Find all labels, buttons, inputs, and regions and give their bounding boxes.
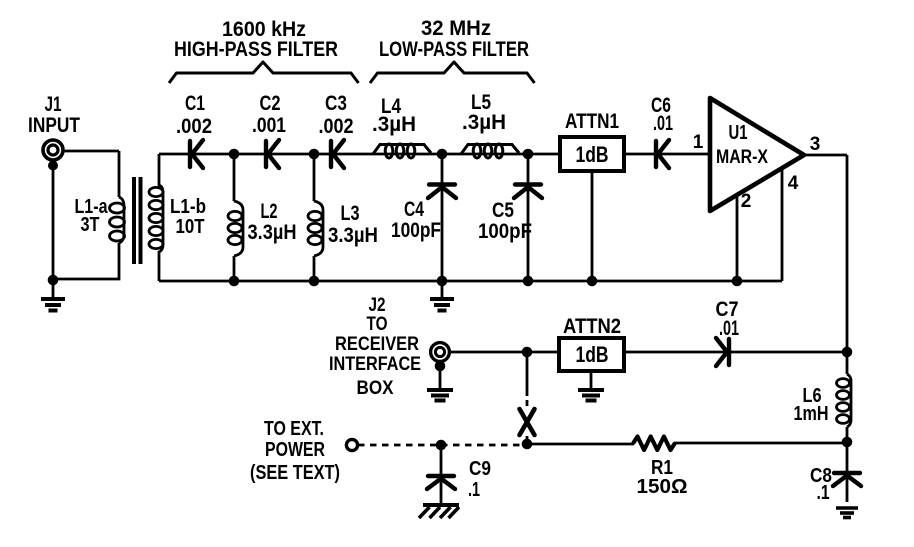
svg-text:J2: J2 [369, 295, 386, 316]
wire ATTN1 output to U1 pin 1 [624, 153, 710, 156]
wire ATTN1 ground stem to bus [591, 171, 594, 281]
node junction C1-C2 / L2 [229, 149, 240, 160]
svg-text:.01: .01 [719, 317, 739, 340]
wire J1 down lead [52, 160, 55, 280]
capacitor C6 [656, 140, 669, 168]
wire ext power line to R1 [527, 443, 634, 446]
node J1 lead [48, 275, 59, 286]
terminal to ext power open circle [346, 439, 357, 450]
wire U1 pin 2 to bus [736, 195, 739, 281]
transformer L1-a primary winding [110, 197, 125, 243]
svg-text:C4: C4 [404, 198, 424, 221]
wire L2 branch lower [233, 256, 236, 281]
svg-text:150Ω: 150Ω [637, 476, 688, 498]
wire L3 branch upper [313, 154, 316, 201]
attenuator ATTN1 box [560, 137, 624, 171]
svg-text:ATTN1: ATTN1 [565, 110, 619, 133]
svg-text:J1: J1 [45, 93, 62, 116]
svg-text:32 MHz: 32 MHz [421, 17, 491, 40]
svg-text:TO: TO [367, 314, 388, 335]
svg-text:1: 1 [693, 132, 704, 153]
svg-text:HIGH-PASS FILTER: HIGH-PASS FILTER [174, 38, 338, 61]
svg-text:2: 2 [741, 191, 752, 212]
wire right vertical rail [846, 155, 849, 374]
svg-text:.3µH: .3µH [462, 111, 506, 134]
resistor R1 [633, 437, 675, 451]
svg-text:INTERFACE: INTERFACE [329, 354, 421, 375]
svg-text:C2: C2 [260, 92, 281, 115]
wire R1 to right rail [674, 442, 847, 445]
svg-text:RECEIVER: RECEIVER [335, 334, 419, 355]
svg-text:1dB: 1dB [576, 142, 609, 167]
wire primary loop right upper [118, 151, 121, 197]
wire X branch vertical upper [526, 352, 529, 396]
node right rail at R1 line / L6 / C8 [842, 437, 853, 448]
svg-text:MAR-X: MAR-X [716, 147, 768, 168]
svg-text:100pF: 100pF [391, 219, 441, 242]
svg-text:.01: .01 [653, 112, 673, 135]
node ext line at X branch [522, 439, 533, 450]
wire ATTN2 ground stem [590, 371, 593, 389]
svg-text:POWER: POWER [265, 439, 325, 461]
svg-text:.3µH: .3µH [372, 113, 416, 136]
node bus at L2 [229, 276, 240, 287]
svg-text:1dB: 1dB [576, 342, 609, 367]
node junction L4-L5 / C4 [437, 149, 448, 160]
svg-text:3T: 3T [81, 214, 100, 236]
wire bottom ground bus [159, 280, 782, 283]
svg-text:.001: .001 [252, 114, 286, 137]
ground hatched below C9 [419, 505, 459, 518]
svg-text:100pF: 100pF [478, 220, 532, 243]
ground below J2 [427, 390, 453, 401]
wire primary loop right lower [53, 243, 119, 279]
brace low-pass filter [370, 62, 535, 83]
brace high-pass filter [169, 62, 359, 83]
capacitor C4 [428, 185, 456, 199]
node bus at C5 [523, 276, 534, 287]
wire L2 branch upper [233, 154, 236, 201]
svg-text:C5: C5 [492, 199, 514, 222]
wire U1 pin 3 output [802, 154, 847, 157]
svg-text:1mH: 1mH [794, 403, 829, 425]
svg-text:BOX: BOX [357, 378, 394, 399]
svg-text:INPUT: INPUT [28, 114, 80, 137]
svg-text:3.3µH: 3.3µH [328, 224, 378, 247]
node bus at L3 [309, 276, 320, 287]
ground below ATTN2 [578, 390, 604, 401]
wire dashed ext power segment 1 [358, 444, 440, 447]
svg-text:4: 4 [788, 173, 799, 194]
svg-text:LOW-PASS FILTER: LOW-PASS FILTER [379, 38, 529, 61]
node junction L5-ATTN1 / C5 [523, 149, 534, 160]
wire C5 shunt branch [527, 154, 530, 281]
wire right rail below L6 through C8 to ground [846, 427, 849, 502]
svg-text:.002: .002 [176, 115, 212, 138]
wire top rail from transformer secondary to ATTN1 [159, 153, 560, 156]
wire U1 pin 4 to bus [781, 168, 784, 281]
transformer L1-b secondary winding [149, 154, 163, 281]
capacitor C3 [331, 140, 344, 168]
node bus at ATTN1 stem [587, 276, 598, 287]
wire C9 stem [440, 445, 443, 503]
wire C4 shunt branch [441, 154, 444, 281]
svg-text:L3: L3 [341, 202, 360, 225]
wire ATTN2 to C7 to right rail [624, 351, 847, 354]
transformer core [134, 177, 141, 264]
inductor L3 [308, 201, 323, 256]
svg-text:ATTN2: ATTN2 [563, 315, 621, 338]
svg-text:3: 3 [810, 134, 821, 155]
wire X branch vertical middle stub [526, 400, 529, 406]
node junction C2-C3 / L3 [309, 149, 320, 160]
svg-text:L2: L2 [261, 200, 278, 223]
inductor L6 [837, 374, 852, 427]
svg-text:U1: U1 [729, 122, 748, 144]
wire L3 branch lower [313, 256, 316, 281]
capacitor C7 [716, 338, 729, 366]
node right rail at C7 line [842, 347, 853, 358]
op-amp U1 MAR-X triangle [710, 98, 804, 211]
svg-text:C1: C1 [185, 92, 205, 115]
wire J2 line to ATTN2 [449, 351, 559, 354]
svg-text:C9: C9 [469, 458, 491, 480]
ground below J1 [41, 280, 65, 311]
svg-text:C3: C3 [325, 92, 347, 115]
svg-text:TO EXT.: TO EXT. [264, 418, 324, 440]
inductor L2 [228, 201, 243, 256]
node bus at C4 [437, 276, 448, 287]
inductor L5 [461, 144, 519, 158]
svg-text:3.3µH: 3.3µH [248, 221, 297, 244]
svg-text:.1: .1 [817, 482, 830, 504]
node bus at U1 pin 2 [732, 276, 743, 287]
capacitor C2 [266, 140, 279, 168]
connector J1 [43, 140, 63, 171]
svg-text:.1: .1 [468, 479, 480, 501]
wire dashed ext power segment 2 [441, 444, 527, 447]
node ext line at C9 [436, 440, 447, 451]
ground below bus at C4 [430, 281, 454, 311]
capacitor C9 [427, 476, 455, 489]
svg-text:(SEE TEXT): (SEE TEXT) [250, 462, 340, 484]
node J2 line at X branch [522, 347, 533, 358]
ground below C8 [836, 508, 858, 518]
wire J1 top lead [63, 150, 119, 153]
attenuator ATTN2 box [559, 338, 624, 371]
svg-text:L1-b: L1-b [170, 196, 206, 218]
svg-text:10T: 10T [176, 216, 205, 238]
svg-text:.002: .002 [319, 115, 354, 138]
inductor L4 [373, 144, 431, 158]
wire J2 connector to ground [439, 360, 442, 389]
wire X branch vertical lower stub [526, 436, 529, 444]
connector J2 [431, 343, 450, 372]
capacitor C8 [833, 473, 861, 486]
capacitor C5 [514, 185, 542, 199]
switch X mark [520, 409, 535, 435]
capacitor C1 [190, 140, 203, 168]
